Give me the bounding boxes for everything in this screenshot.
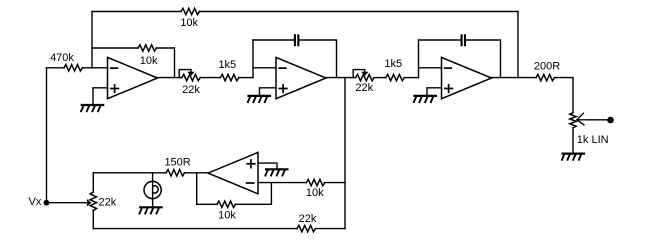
svg-text:200R: 200R — [534, 60, 560, 72]
resistor 10k (U4 to bus) — [306, 179, 324, 185]
wire: Vx vertical riser — [46, 68, 48, 203]
ground (U2 non-inverting input) — [249, 95, 270, 97]
wire: U3 + input to ground — [427, 88, 442, 95]
svg-text:22k: 22k — [299, 213, 317, 225]
svg-text:10k: 10k — [140, 55, 158, 67]
node Vx terminal — [44, 200, 50, 206]
op-amp U1 — [108, 57, 158, 98]
svg-text:1k LIN: 1k LIN — [577, 134, 609, 146]
wire: U3 input junction — [419, 40, 442, 78]
wire: pot bottom to ground — [572, 128, 574, 153]
svg-text:10k: 10k — [218, 209, 236, 221]
wire: pot top to 150R — [93, 172, 166, 174]
resistor 10k (U1 feedback) — [92, 47, 138, 49]
resistor 22k (bottom) — [297, 225, 315, 231]
wire: U1 + input to ground — [93, 88, 108, 105]
svg-text:470k: 470k — [50, 52, 74, 64]
op-amp U3 — [442, 57, 492, 98]
ground (output pot) — [563, 153, 584, 155]
node: output terminal — [607, 117, 614, 124]
wire: U3 output to 200R — [492, 77, 537, 79]
resistor 1k5 (first) — [220, 74, 238, 80]
ground (U4 non-inverting input) — [266, 168, 287, 170]
ground (U1 non-inverting input) — [82, 104, 103, 106]
resistor 10k (global feedback) — [181, 8, 199, 14]
trimmer 22k (after U1) — [182, 74, 200, 80]
wire: 200R to output pot — [554, 78, 573, 113]
svg-text:150R: 150R — [164, 157, 190, 169]
resistor 10k (U4 feedback) — [197, 173, 217, 204]
trimmer 22k (input attenuator) — [92, 173, 94, 192]
trimmer 22k (after U2) — [356, 74, 374, 80]
svg-text:1k5: 1k5 — [218, 59, 236, 71]
svg-text:10k: 10k — [306, 187, 324, 199]
ground (transducer) — [140, 206, 161, 208]
resistor 200R — [536, 74, 554, 80]
wire: U1 output — [158, 77, 182, 79]
wire: U4 - input row — [258, 182, 306, 184]
wire: global feedback top — [92, 12, 518, 78]
svg-text:Vx: Vx — [29, 196, 42, 208]
wire: feedback bus vertical — [344, 78, 346, 229]
wire: U2 output — [326, 77, 356, 79]
wire: U2 + input to ground — [260, 88, 277, 95]
op-amp U2 — [276, 57, 326, 98]
potentiometer 1k LIN — [570, 113, 576, 128]
resistor 1k5 (second) — [386, 74, 404, 80]
wire: U4 + input to ground — [258, 163, 277, 169]
wire: pot wiper to output terminal — [577, 119, 607, 121]
svg-text:22k: 22k — [99, 197, 117, 209]
op-amp U4 — [208, 152, 258, 193]
transducer TR1 (jack to ground) — [152, 173, 154, 207]
svg-text:1k5: 1k5 — [384, 58, 402, 70]
resistor 150R — [166, 170, 184, 176]
svg-text:22k: 22k — [355, 82, 373, 94]
svg-text:22k: 22k — [182, 84, 200, 96]
svg-text:10k: 10k — [180, 17, 198, 29]
wire: U2 input junction — [253, 40, 276, 78]
wire: pot to 1k5 — [200, 77, 220, 79]
capacitor C1 (U2 feedback) — [253, 40, 337, 78]
ground (U3 non-inverting input) — [415, 95, 436, 97]
capacitor C2 (U3 feedback) — [419, 40, 501, 78]
resistor 470k — [47, 67, 64, 69]
wire: pot to 1k5 second — [374, 77, 386, 79]
wire: bottom rail — [93, 228, 297, 230]
wire: Vx to pot wiper — [47, 202, 88, 204]
